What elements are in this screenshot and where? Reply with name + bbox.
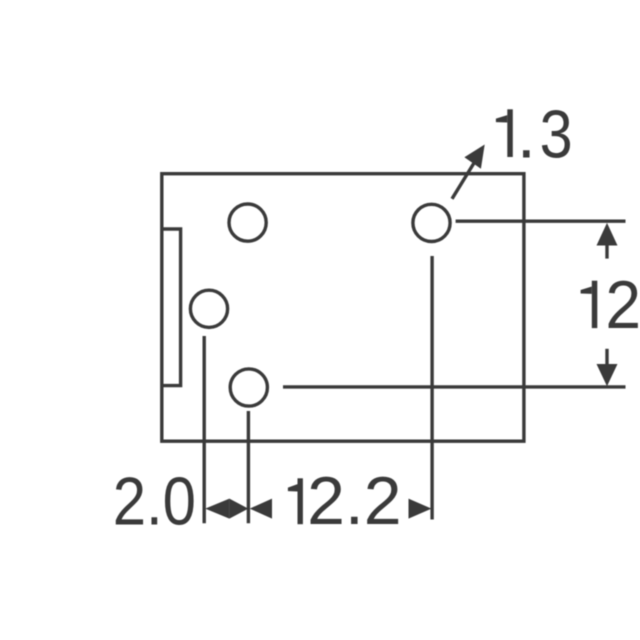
shaft of 12 dim lower arrow bbox=[605, 349, 608, 365]
pin-1 side notch bbox=[162, 229, 181, 386]
extension line from top-right pin (vertical) bbox=[430, 256, 433, 520]
extension line from top-right pin (horizontal) bbox=[456, 219, 626, 222]
extension line from bottom pin bbox=[247, 411, 250, 523]
arrowhead 2.0 dim right bbox=[229, 499, 248, 519]
svg-text:2: 2 bbox=[605, 267, 640, 343]
pin hole top-left bbox=[229, 204, 266, 241]
extension line from bottom pin (horizontal) bbox=[283, 385, 626, 388]
svg-text:3: 3 bbox=[540, 96, 573, 172]
arrowhead 1.3 leader bbox=[464, 145, 484, 169]
leader line to 1.3 label bbox=[452, 163, 474, 199]
svg-text:2.2: 2.2 bbox=[307, 463, 402, 539]
arrowhead 12 dim up bbox=[597, 223, 618, 246]
relay body outline bbox=[162, 174, 524, 442]
pin hole top-right bbox=[413, 204, 450, 241]
label 12 digit 1 bbox=[581, 281, 598, 328]
shaft of 12 dim upper arrow bbox=[605, 245, 608, 259]
svg-text:2.0: 2.0 bbox=[113, 464, 196, 540]
pin hole bottom bbox=[230, 369, 267, 406]
arrowhead 2.0 dim left bbox=[205, 499, 229, 519]
extension line from middle-left pin bbox=[202, 336, 205, 523]
pin hole middle-left bbox=[190, 290, 227, 327]
arrowhead 12.2 dim left bbox=[250, 499, 272, 519]
arrowhead 12 dim down bbox=[597, 364, 618, 386]
arrowhead 12.2 dim right bbox=[409, 499, 432, 519]
label 1.3 digit 1 bbox=[496, 109, 513, 157]
svg-text:.: . bbox=[517, 96, 536, 172]
label 12.2 digit 1 bbox=[288, 478, 303, 524]
